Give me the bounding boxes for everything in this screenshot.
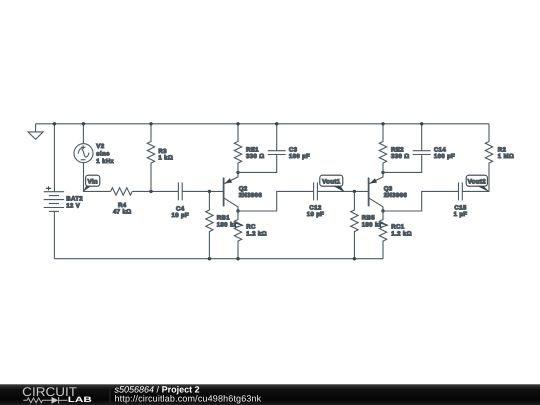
svg-text:Vout1: Vout1 bbox=[322, 178, 341, 185]
resistor RE1 bbox=[234, 124, 241, 173]
node C14 top rail bbox=[420, 122, 423, 125]
svg-text:47 kΩ: 47 kΩ bbox=[113, 209, 132, 216]
svg-text:http://circuitlab.com/cu498h6t: http://circuitlab.com/cu498h6tg63nk bbox=[115, 393, 262, 403]
svg-text:V2: V2 bbox=[96, 143, 104, 150]
net label Vin bbox=[83, 175, 100, 192]
svg-text:1 µF: 1 µF bbox=[454, 211, 468, 218]
svg-text:10 µF: 10 µF bbox=[307, 211, 324, 218]
svg-text:10 µF: 10 µF bbox=[171, 212, 188, 219]
node R3/C4 junction bbox=[149, 190, 152, 193]
battery BAT2 bbox=[44, 124, 64, 259]
svg-text:1 MΩ: 1 MΩ bbox=[498, 153, 514, 160]
node V2 top rail bbox=[82, 122, 85, 125]
node RE2 top rail bbox=[381, 122, 384, 125]
resistor R3 bbox=[147, 124, 154, 192]
capacitor C15 bbox=[459, 182, 463, 200]
node RC bottom rail bbox=[236, 257, 239, 260]
svg-text:1.2 kΩ: 1.2 kΩ bbox=[391, 230, 412, 237]
node RE1 top rail bbox=[236, 122, 239, 125]
marker arrow at RC bbox=[236, 223, 243, 227]
node R3 top rail bbox=[149, 122, 152, 125]
svg-text:2N3906: 2N3906 bbox=[384, 192, 408, 199]
svg-text:2N3906: 2N3906 bbox=[239, 192, 263, 199]
transistor Q2 2N3906 bbox=[224, 172, 238, 211]
svg-text:RB5: RB5 bbox=[362, 214, 376, 221]
wire collector to output bbox=[383, 191, 459, 211]
net label Vout1 bbox=[320, 175, 345, 192]
footer divider bbox=[109, 387, 111, 404]
node emitter junction bbox=[381, 171, 384, 174]
svg-text:12 V: 12 V bbox=[66, 202, 81, 209]
svg-text:1.2 kΩ: 1.2 kΩ bbox=[246, 230, 267, 237]
resistor RC1 bbox=[379, 211, 386, 259]
svg-text:330 Ω: 330 Ω bbox=[391, 153, 410, 160]
logo schematic squiggle bbox=[23, 397, 67, 404]
capacitor C14 bypass bbox=[383, 124, 431, 173]
resistor RE2 bbox=[379, 124, 386, 173]
svg-text:sine: sine bbox=[96, 151, 110, 158]
voltage source V2 bbox=[74, 124, 93, 192]
resistor RC bbox=[234, 211, 241, 259]
svg-text:100 µF: 100 µF bbox=[434, 153, 455, 160]
svg-text:330 Ω: 330 Ω bbox=[246, 153, 265, 160]
wire collector to output bbox=[238, 191, 314, 211]
node collector junction bbox=[381, 209, 384, 212]
node RB1 bottom rail bbox=[208, 257, 211, 260]
capacitor C3 bypass bbox=[238, 124, 286, 173]
svg-text:100 µF: 100 µF bbox=[289, 153, 310, 160]
capacitor C12 bbox=[314, 182, 318, 200]
node base junction RB5 bbox=[353, 190, 356, 193]
resistor R2 bbox=[485, 124, 492, 192]
node battery top rail bbox=[53, 122, 56, 125]
wire: +12V top rail bbox=[36, 123, 489, 125]
footer bar bbox=[0, 384, 540, 405]
ground bbox=[28, 124, 43, 140]
wire: bottom ground rail bbox=[54, 258, 383, 260]
net label Vout2 bbox=[466, 175, 490, 192]
capacitor C4 bbox=[178, 182, 182, 200]
resistor RB5 bbox=[351, 191, 358, 258]
svg-text:BAT2: BAT2 bbox=[66, 195, 83, 202]
svg-text:RB1: RB1 bbox=[217, 214, 231, 221]
resistor R4 bbox=[111, 188, 133, 195]
node base junction RB1 bbox=[208, 190, 211, 193]
svg-text:Vin: Vin bbox=[87, 178, 97, 185]
transistor Q3 2N3906 bbox=[369, 172, 383, 211]
wire Vin node to R4 bbox=[83, 190, 110, 192]
node collector junction bbox=[236, 209, 239, 212]
wire C12 to Q3 base bbox=[317, 190, 368, 192]
node C3 top rail bbox=[275, 122, 278, 125]
svg-text:1 kΩ: 1 kΩ bbox=[158, 155, 173, 162]
svg-text:LAB: LAB bbox=[68, 395, 93, 404]
node RB5 bottom rail bbox=[353, 257, 356, 260]
svg-text:1 kHz: 1 kHz bbox=[96, 158, 114, 165]
wire C15 to R2 bbox=[462, 190, 489, 192]
wire R4 to C4 bbox=[132, 190, 178, 192]
svg-text:Vout2: Vout2 bbox=[468, 178, 487, 185]
node emitter junction bbox=[236, 171, 239, 174]
marker arrow at RC1 bbox=[381, 223, 388, 227]
wire C4 to Q2 base bbox=[182, 190, 223, 192]
resistor RB1 bbox=[206, 191, 213, 258]
